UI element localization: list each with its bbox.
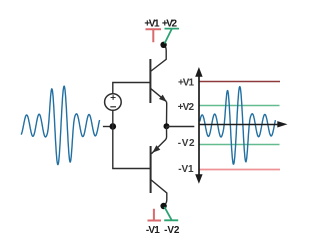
- -V1 supply terminal (red): [148, 209, 162, 221]
- source plus: [111, 95, 116, 100]
- output waveform: [200, 87, 276, 165]
- svg-text:+V2: +V2: [162, 19, 178, 30]
- axis arrow down: [195, 174, 202, 183]
- graph level line +V1: [199, 81, 280, 83]
- wire source top to Q1 base: [113, 83, 151, 94]
- source minus: [110, 106, 116, 108]
- Q2 emitter arrow (PNP): [152, 145, 160, 153]
- axis arrow up: [195, 67, 202, 77]
- transistor Q2 collector: [151, 180, 167, 205]
- Q1 emitter arrow: [159, 95, 167, 102]
- svg-text:+V1: +V1: [178, 77, 194, 88]
- wire output node to Q2 emitter: [151, 126, 166, 154]
- graph horizontal axis: [199, 124, 279, 126]
- wire output node to graph: [167, 126, 195, 128]
- graph level line -V2: [199, 144, 280, 146]
- svg-text:-V1: -V1: [146, 225, 160, 236]
- wire source bottom to node: [112, 110, 114, 126]
- graph level line +V2: [199, 105, 280, 107]
- wire Q1 emitter to output node: [165, 102, 167, 124]
- svg-text:+V1: +V1: [144, 19, 160, 30]
- -V2 supply terminal (green): [164, 207, 178, 220]
- input signal waveform: [21, 86, 99, 164]
- +V2 supply terminal (green): [165, 29, 180, 44]
- node output: [164, 123, 170, 129]
- axis arrow right: [277, 121, 287, 127]
- node input: [110, 123, 117, 130]
- svg-text:+V2: +V2: [178, 102, 195, 113]
- svg-text:-V1: -V1: [178, 164, 194, 175]
- wire node down to Q2 base: [113, 126, 151, 168]
- +V1 supply terminal (red): [146, 29, 162, 42]
- svg-text:-V2: -V2: [178, 138, 195, 149]
- transistor Q1 base bar: [149, 59, 151, 103]
- node bottom supply: [160, 203, 166, 209]
- wire input to node: [103, 126, 113, 128]
- graph vertical axis: [198, 74, 200, 177]
- graph level line -V1: [199, 169, 280, 171]
- transistor Q1 collector: [150, 45, 166, 71]
- transistor Q2 base bar: [150, 146, 152, 193]
- node top supply: [160, 42, 166, 48]
- voltage source circle: [105, 94, 122, 111]
- transistor Q1 emitter: [150, 88, 166, 101]
- svg-text:-V2: -V2: [164, 225, 180, 236]
